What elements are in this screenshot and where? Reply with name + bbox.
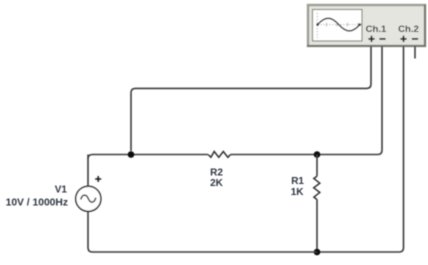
label R2 — [210, 168, 223, 179]
screen horizontal axis (dotted with ticks) — [318, 23, 360, 27]
label 10V / 1000Hz — [6, 198, 68, 209]
svg-text:R2: R2 — [210, 168, 223, 179]
svg-text:V1: V1 — [55, 185, 68, 196]
svg-text:1K: 1K — [291, 187, 305, 198]
wire top rail left (V1 to R2) — [88, 155, 208, 159]
terminal Ch.2 plus — [400, 36, 406, 42]
svg-text:Ch.2: Ch.2 — [398, 24, 419, 35]
node A junction dot — [128, 151, 135, 158]
svg-text:Ch.1: Ch.1 — [366, 24, 387, 35]
terminal Ch.1 plus — [368, 36, 374, 42]
resistor R2 — [208, 152, 230, 158]
node C junction dot (bottom rail) — [314, 249, 321, 256]
wire top rail right (R2 to node B) — [230, 154, 317, 156]
oscilloscope screen — [313, 10, 363, 42]
label Ch.1 — [366, 24, 387, 35]
label 2K — [210, 178, 224, 189]
label V1 — [55, 185, 68, 196]
terminal Ch.2 minus — [412, 38, 418, 40]
wire stub Ch.2- — [414, 47, 416, 59]
oscilloscope XSC1 body — [307, 5, 426, 47]
node B junction dot — [314, 151, 321, 158]
label Ch.2 — [398, 24, 419, 35]
wire V1 top lead — [87, 155, 89, 187]
wire Ch.1+ to node A — [131, 47, 371, 152]
label R1 — [291, 176, 304, 187]
wire Ch.2+ to bottom rail — [320, 47, 404, 253]
resistor R1 — [314, 176, 320, 199]
voltage source V1 — [76, 186, 101, 211]
V1 polarity plus — [95, 176, 101, 182]
wire R1 top lead — [316, 155, 318, 177]
wire Ch.1- to node B — [320, 47, 382, 155]
screen vertical axis (dotted) — [316, 13, 318, 38]
wire V1 bottom lead to bottom rail — [88, 211, 317, 252]
terminal Ch.1 minus — [379, 38, 385, 40]
wire R1 bottom lead — [316, 200, 318, 253]
svg-text:R1: R1 — [291, 176, 304, 187]
label 1K — [291, 187, 305, 198]
screen sine waveform — [316, 18, 361, 31]
svg-text:2K: 2K — [210, 178, 224, 189]
svg-text:10V / 1000Hz: 10V / 1000Hz — [6, 198, 68, 209]
